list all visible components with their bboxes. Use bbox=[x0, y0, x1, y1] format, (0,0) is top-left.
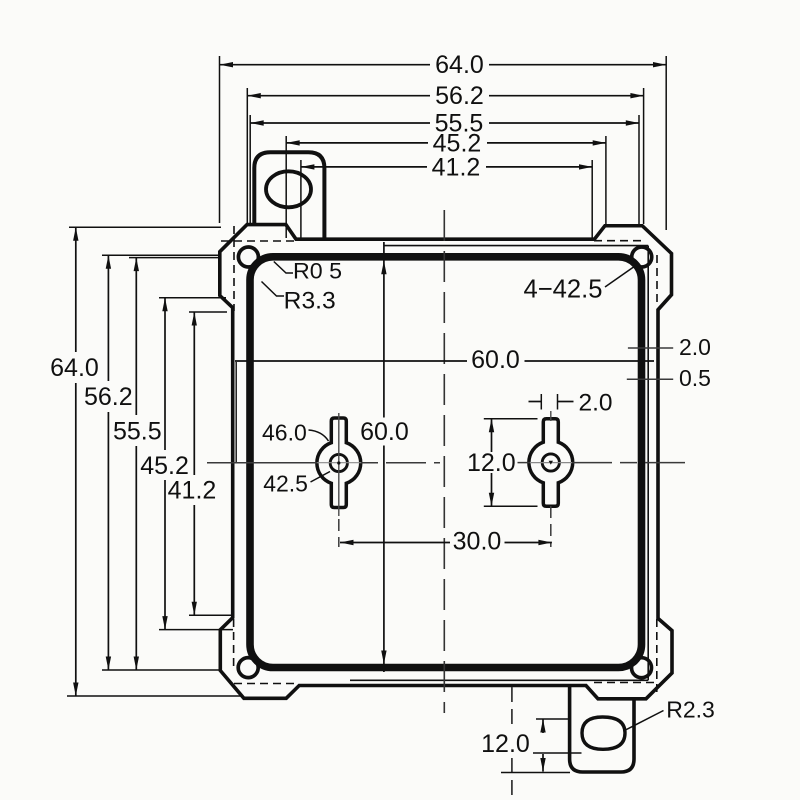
dim 12.0 bottom: extension lines bbox=[536, 718, 570, 720]
svg-text:R0 5: R0 5 bbox=[293, 259, 342, 284]
dim 45.2 left: line bbox=[164, 298, 166, 450]
svg-text:4−42.5: 4−42.5 bbox=[524, 274, 603, 304]
dim 60.0 horizontal: line bbox=[235, 360, 467, 362]
svg-text:55.5: 55.5 bbox=[113, 418, 162, 446]
dim 56.2 left: extension lines bbox=[102, 254, 221, 256]
svg-text:46.0: 46.0 bbox=[262, 419, 307, 445]
dim 55.5 top: extension lines bbox=[249, 115, 251, 223]
corner hole bottom-left bbox=[238, 658, 258, 678]
svg-text:60.0: 60.0 bbox=[471, 346, 520, 374]
arrows dim 45.2 top bbox=[286, 140, 300, 145]
top mounting tab bbox=[254, 152, 324, 239]
svg-text:R3.3: R3.3 bbox=[284, 287, 336, 314]
right slot center hole bbox=[542, 454, 559, 471]
svg-text:56.2: 56.2 bbox=[84, 383, 133, 411]
left slot center dot bbox=[337, 461, 340, 464]
top tab oval hole bbox=[266, 171, 311, 207]
corner hole top-left bbox=[238, 247, 258, 267]
dim 2.0 right wall: leader line bbox=[628, 347, 673, 349]
dim 55.5 top: line bbox=[250, 122, 430, 124]
inner thick rounded square R3.3 bbox=[250, 257, 642, 668]
arrows dim 55.5 left bbox=[134, 258, 139, 272]
dim 55.5 left: extension line bbox=[129, 257, 221, 259]
leader 42.5 bbox=[311, 472, 331, 483]
corner hole top-right bbox=[632, 247, 652, 267]
inner 0.5 offset line bottom bbox=[350, 679, 648, 681]
horizontal centerline through slots bbox=[207, 462, 317, 464]
inner 0.5 offset line right bbox=[647, 246, 649, 681]
left keyhole slot bbox=[317, 418, 361, 508]
dim 64.0 top: line bbox=[220, 64, 431, 66]
dim 56.2 top: line bbox=[247, 95, 430, 97]
svg-text:R2.3: R2.3 bbox=[666, 697, 715, 723]
svg-text:41.2: 41.2 bbox=[168, 477, 217, 505]
leader R2.3 bbox=[625, 711, 664, 731]
dim 41.2 top: line bbox=[301, 166, 427, 168]
right slot vertical centerline bbox=[550, 411, 552, 421]
svg-text:41.2: 41.2 bbox=[432, 153, 481, 181]
dim 0.5 right wall: leader line bbox=[627, 378, 673, 380]
arrows dim 56.2 top bbox=[247, 93, 260, 98]
dim 64.0 left: line bbox=[75, 227, 77, 352]
dim 45.2 top: line bbox=[286, 142, 428, 144]
dim 41.2 left: extension lines bbox=[189, 311, 227, 313]
dim 45.2 left: extension lines bbox=[159, 297, 226, 299]
body outer outline with corner pads bbox=[220, 225, 672, 699]
corner hole bottom-right bbox=[632, 658, 652, 678]
bottom mounting tab bbox=[570, 686, 634, 773]
dim 56.2 top: extension lines bbox=[246, 88, 248, 223]
arrows dim 12.0 bottom bbox=[540, 719, 545, 733]
dim 41.2 left: line bbox=[193, 312, 195, 475]
arrows dim 41.2 left bbox=[192, 312, 197, 326]
inner 0.5 offset line top bbox=[384, 245, 649, 247]
dim 12.0 slot: extension lines bbox=[484, 418, 538, 420]
right slot center dot bbox=[549, 461, 553, 465]
svg-text:12.0: 12.0 bbox=[467, 449, 516, 477]
leader R3.3 bbox=[262, 282, 285, 297]
dim 12.0 slot: line bbox=[491, 419, 493, 452]
arrows dim 55.5 top bbox=[250, 120, 264, 125]
svg-text:60.0: 60.0 bbox=[360, 418, 409, 446]
dashed line below body at x=512 bbox=[511, 687, 513, 727]
arrows dim 12.0 slot bbox=[489, 419, 494, 433]
main vertical centerline bbox=[443, 210, 445, 713]
arrows dim 64.0 top bbox=[220, 62, 234, 67]
leader R0 5 bbox=[274, 262, 293, 274]
dim 56.2 left: line bbox=[107, 255, 109, 381]
arrows dim 41.2 top bbox=[301, 164, 315, 169]
svg-text:0.5: 0.5 bbox=[679, 365, 711, 391]
dim 41.2 top: extension lines bbox=[300, 160, 302, 238]
svg-text:12.0: 12.0 bbox=[481, 730, 530, 758]
arrows dim 64.0 left bbox=[73, 227, 78, 241]
svg-text:2.0: 2.0 bbox=[578, 389, 612, 416]
left slot vertical centerline bbox=[338, 413, 340, 516]
leader 4-42.5 bbox=[605, 266, 635, 287]
svg-text:64.0: 64.0 bbox=[435, 51, 484, 79]
hidden dashed edges in top-right pad bbox=[656, 255, 658, 306]
hidden dashed edges in top-left pad bbox=[233, 226, 235, 311]
arrows dim 60.0 vertical bbox=[381, 261, 386, 275]
dim 60.0 vertical: line bbox=[383, 242, 385, 418]
dim 2.0 slot tab: arrow lines and ticks bbox=[529, 401, 542, 403]
leader 46.0 bbox=[309, 430, 329, 441]
svg-text:30.0: 30.0 bbox=[453, 528, 502, 556]
dim 30.0: line bbox=[340, 542, 450, 544]
svg-text:56.2: 56.2 bbox=[435, 82, 484, 110]
left slot center hole bbox=[330, 454, 347, 471]
dim 12.0 bottom: line bbox=[542, 719, 544, 733]
dim 45.2 top: extension lines bbox=[285, 136, 287, 238]
bottom tab hole R2.3 bbox=[582, 717, 625, 749]
dim 60.0 horizontal: left tick bbox=[235, 362, 237, 462]
svg-text:2.0: 2.0 bbox=[679, 334, 711, 360]
dim 55.5 left: line bbox=[135, 258, 137, 415]
arrows dim 30.0 bbox=[340, 540, 354, 545]
arrows dim 56.2 left bbox=[106, 255, 111, 268]
arrows dim 45.2 left bbox=[162, 298, 167, 312]
svg-text:42.5: 42.5 bbox=[263, 471, 308, 497]
hidden dashed edges in bottom-left pad bbox=[233, 619, 235, 670]
dim 64.0 left: extension lines bbox=[69, 226, 221, 228]
dim 64.0 top: extension lines bbox=[219, 56, 221, 223]
svg-text:64.0: 64.0 bbox=[50, 354, 99, 382]
right keyhole slot bbox=[529, 419, 573, 507]
hidden dashed edges in bottom-right pad bbox=[656, 619, 658, 693]
